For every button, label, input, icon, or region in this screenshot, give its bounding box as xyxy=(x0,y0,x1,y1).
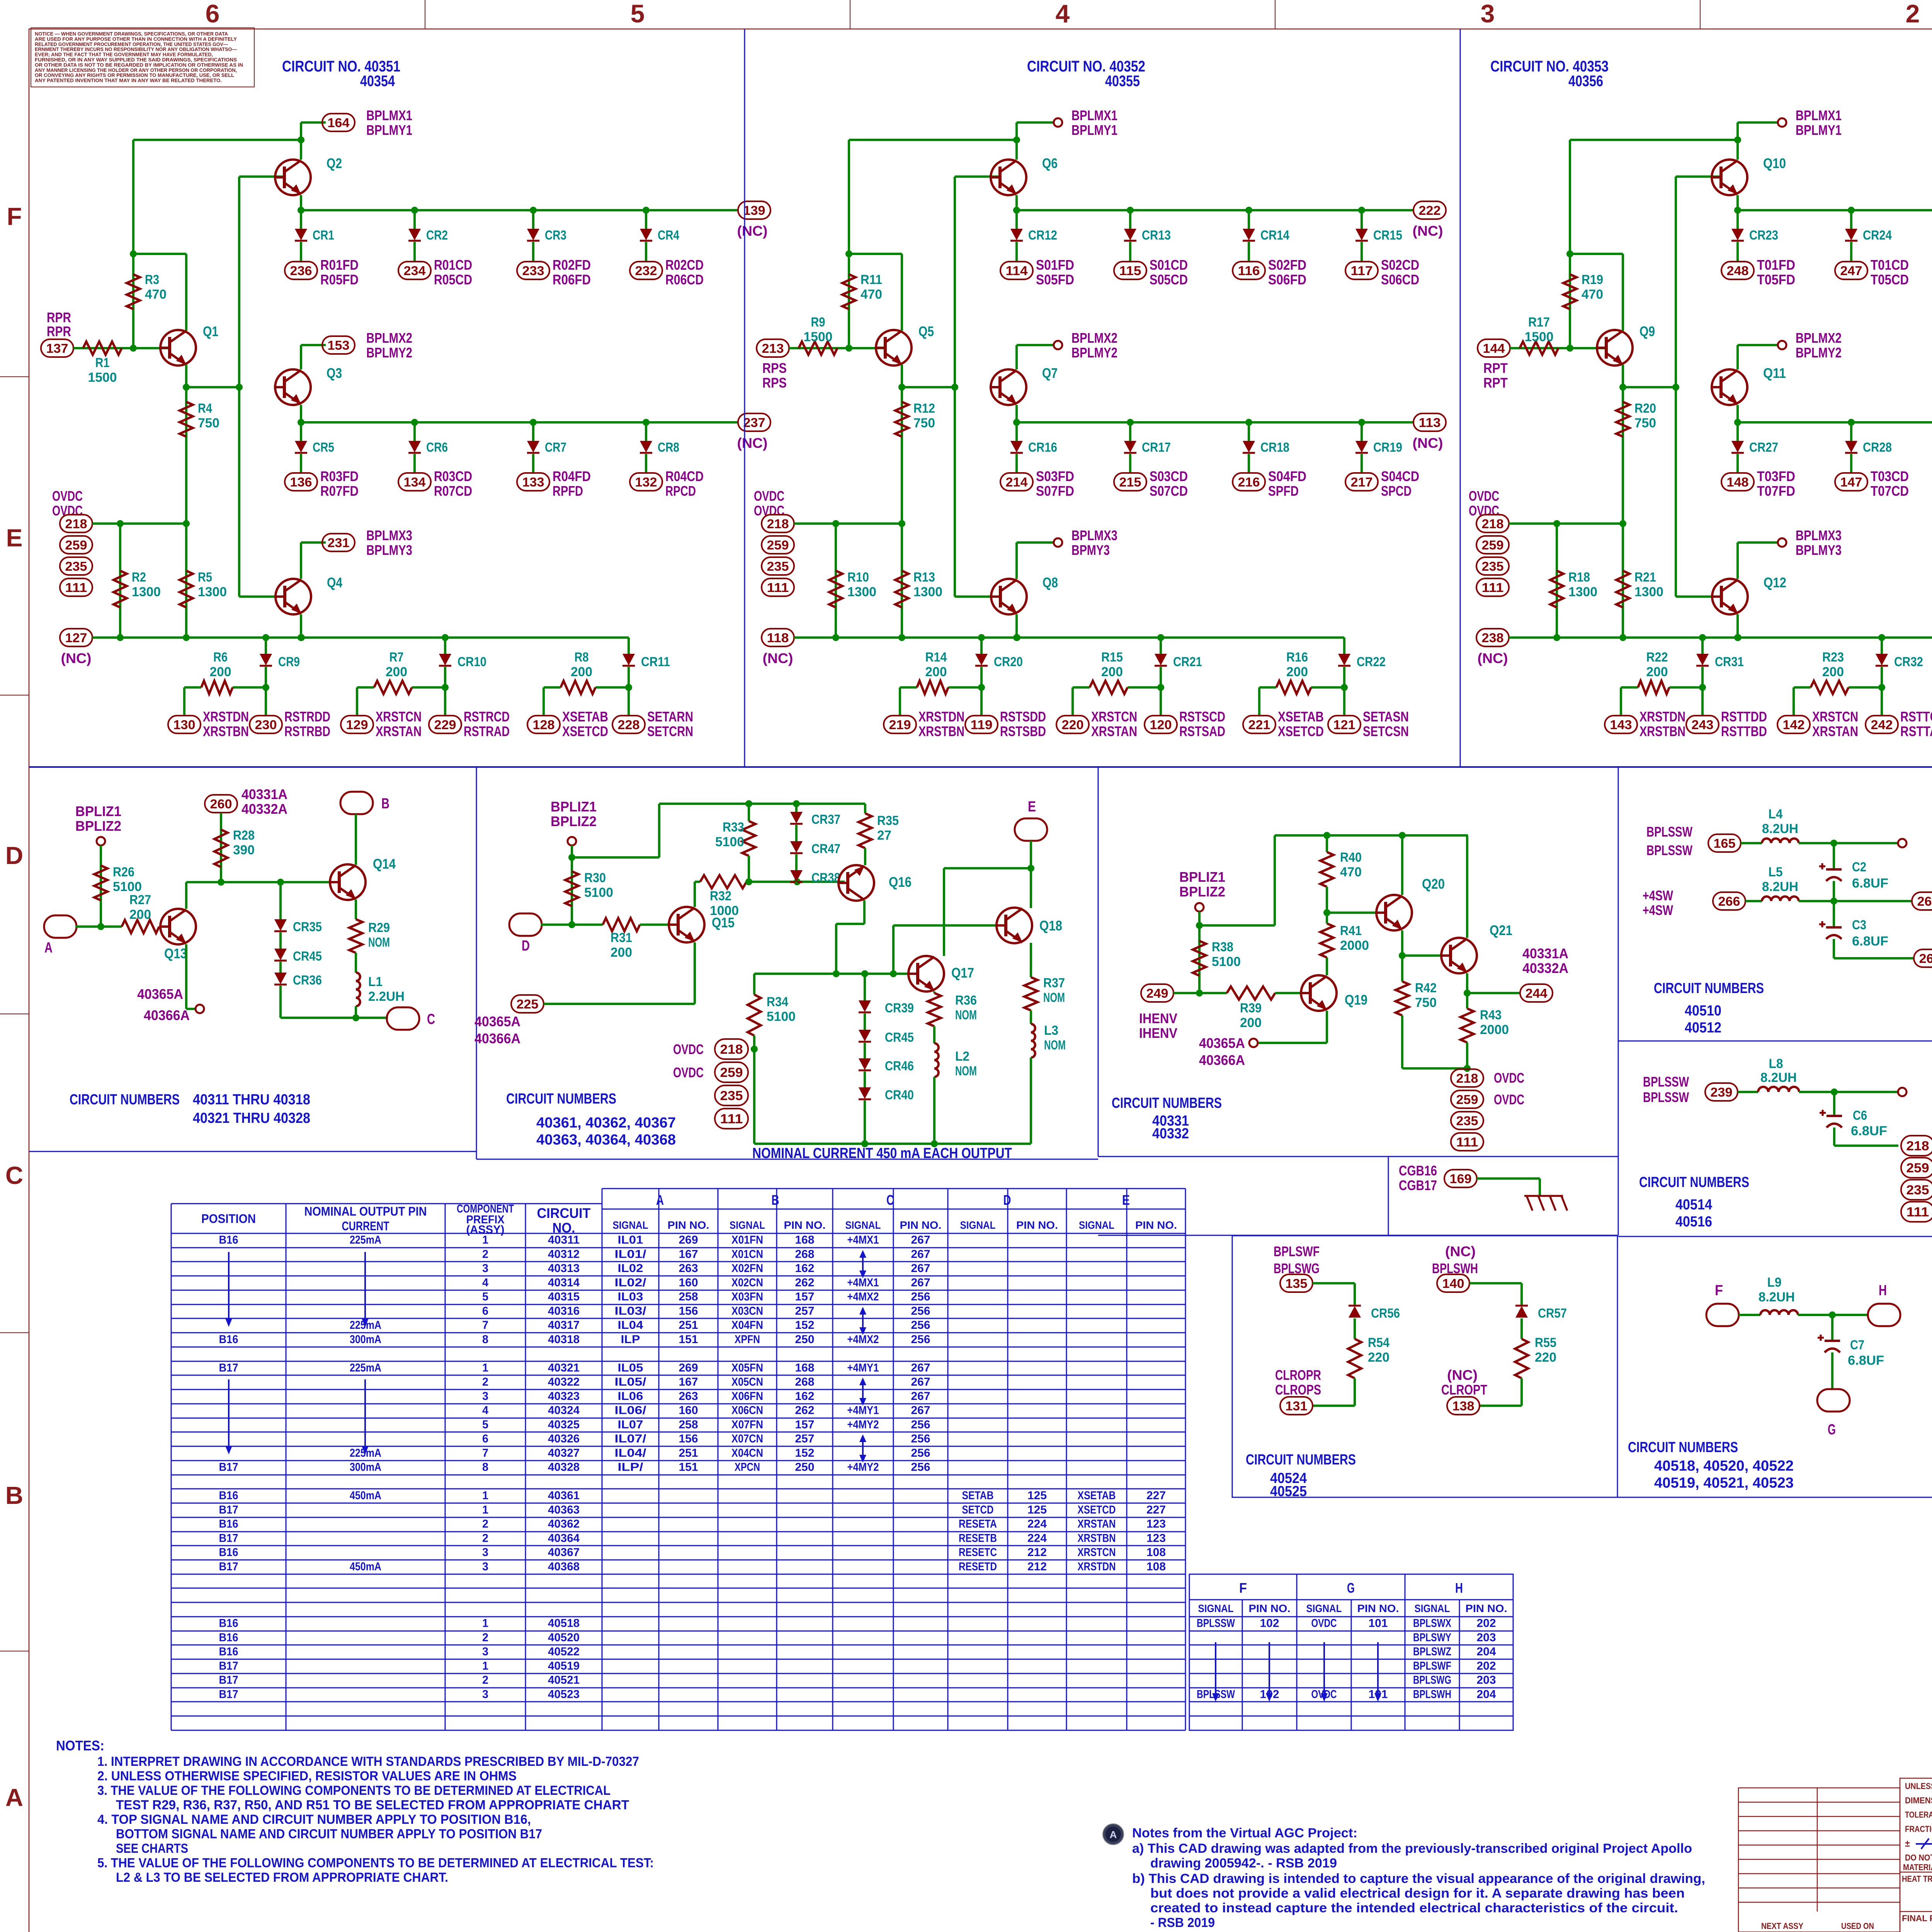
junction xyxy=(931,1140,938,1147)
svg-text:B16: B16 xyxy=(219,1546,238,1559)
svg-text:CLROPR: CLROPR xyxy=(1275,1367,1321,1383)
resistor R9 xyxy=(799,342,837,355)
wire emitter down xyxy=(901,365,903,387)
svg-text:108: 108 xyxy=(1146,1560,1166,1573)
table arrows xyxy=(228,1252,230,1321)
junction xyxy=(978,684,985,691)
svg-text:IHENV: IHENV xyxy=(1139,1025,1177,1041)
wire bus xyxy=(1017,209,1414,211)
junction xyxy=(117,634,124,641)
wire base trunk vertical xyxy=(238,177,240,597)
pin 117 xyxy=(1345,262,1378,279)
svg-text:40325: 40325 xyxy=(548,1418,580,1431)
svg-text:CR31: CR31 xyxy=(1715,655,1744,669)
svg-text:L8: L8 xyxy=(1769,1056,1783,1071)
svg-text:B17: B17 xyxy=(219,1674,238,1687)
svg-text:Q5: Q5 xyxy=(918,323,934,339)
svg-text:T01FD: T01FD xyxy=(1757,257,1795,273)
svg-text:(NC): (NC) xyxy=(737,223,768,239)
wire R54 to 131 xyxy=(1354,1378,1356,1406)
svg-text:204: 204 xyxy=(1477,1688,1496,1701)
svg-text:242: 242 xyxy=(1871,718,1893,732)
svg-text:X01FN: X01FN xyxy=(731,1234,763,1247)
svg-text:40519: 40519 xyxy=(548,1660,580,1672)
svg-text:R14: R14 xyxy=(925,650,947,665)
svg-text:TOLERANCES ON: TOLERANCES ON xyxy=(1905,1810,1932,1820)
svg-text:+4MY1: +4MY1 xyxy=(847,1404,879,1417)
wire L3 to rail xyxy=(1030,1058,1032,1144)
pin 143 xyxy=(1605,716,1637,733)
svg-text:XSETAB: XSETAB xyxy=(1078,1489,1116,1502)
svg-text:B16: B16 xyxy=(219,1518,238,1531)
svg-text:Q1: Q1 xyxy=(203,323,218,339)
svg-text:CGB16: CGB16 xyxy=(1399,1163,1437,1179)
svg-text:OVDC: OVDC xyxy=(673,1041,704,1057)
svg-text:218: 218 xyxy=(1456,1071,1478,1085)
svg-text:216: 216 xyxy=(1238,475,1260,489)
svg-text:128: 128 xyxy=(533,718,555,732)
svg-text:262: 262 xyxy=(795,1404,815,1417)
svg-text:267: 267 xyxy=(911,1234,930,1247)
wire D row xyxy=(541,923,603,926)
svg-text:200: 200 xyxy=(611,945,632,960)
junction xyxy=(1878,684,1885,691)
svg-text:T01CD: T01CD xyxy=(1871,257,1909,273)
diode CR47 xyxy=(795,825,798,841)
svg-text:R2: R2 xyxy=(132,570,146,585)
resistor R1 xyxy=(83,342,122,355)
svg-text:40354: 40354 xyxy=(360,73,395,90)
junction xyxy=(568,854,575,861)
svg-text:but does not provide a valid e: but does not provide a valid electrical … xyxy=(1150,1886,1685,1901)
wire collector row xyxy=(185,882,187,909)
wire bus xyxy=(1738,209,1932,211)
unconnected pin BPLIZ1 xyxy=(568,837,576,845)
wire to rail xyxy=(572,856,659,859)
svg-text:NOM: NOM xyxy=(955,1008,977,1022)
svg-text:XRSTCN: XRSTCN xyxy=(1078,1546,1116,1559)
wire Q19 collector xyxy=(1326,957,1328,975)
svg-text:1: 1 xyxy=(482,1361,488,1374)
unconnected pin BPLIZ1 xyxy=(1195,903,1204,912)
wire to Q19 xyxy=(1275,992,1310,994)
svg-text:131: 131 xyxy=(1286,1399,1308,1413)
capacitor C7 6.8UF xyxy=(1831,1315,1833,1341)
transistor Q21 xyxy=(1441,938,1477,973)
svg-text:CR12: CR12 xyxy=(1028,228,1057,243)
svg-text:SIGNAL: SIGNAL xyxy=(1415,1602,1450,1614)
svg-text:BPLMX3: BPLMX3 xyxy=(1071,527,1117,543)
svg-text:IL01: IL01 xyxy=(618,1234,643,1247)
svg-text:258: 258 xyxy=(679,1418,698,1431)
svg-text:R06CD: R06CD xyxy=(665,272,704,287)
wire vertical left xyxy=(132,140,134,348)
svg-text:231: 231 xyxy=(328,536,350,550)
wire Q17 emitter xyxy=(933,992,935,993)
svg-text:IL03: IL03 xyxy=(618,1291,643,1303)
junction xyxy=(1464,1065,1471,1072)
junction xyxy=(1699,684,1706,691)
svg-text:R12: R12 xyxy=(913,401,935,416)
svg-text:R15: R15 xyxy=(1101,650,1123,665)
section divider xyxy=(476,767,477,1159)
svg-text:XRSTBN: XRSTBN xyxy=(1639,723,1685,739)
svg-text:229: 229 xyxy=(434,718,456,732)
svg-text:4: 4 xyxy=(482,1404,488,1417)
pin 113 xyxy=(1413,413,1446,431)
section divider xyxy=(1460,29,1461,767)
svg-text:236: 236 xyxy=(290,264,312,278)
svg-text:251: 251 xyxy=(679,1447,698,1459)
pin 235 xyxy=(1451,1112,1483,1129)
pin 229 xyxy=(429,716,461,733)
svg-text:F: F xyxy=(1239,1580,1247,1596)
svg-text:XRSTBN: XRSTBN xyxy=(918,723,964,739)
pin 225 xyxy=(511,995,544,1013)
junction xyxy=(1619,634,1626,641)
wire Q18 emitter xyxy=(1030,943,1032,977)
svg-text:RSTSBD: RSTSBD xyxy=(1000,723,1046,739)
pin 130 xyxy=(168,716,201,733)
svg-text:CIRCUIT NUMBERS: CIRCUIT NUMBERS xyxy=(1628,1439,1738,1456)
svg-text:C3: C3 xyxy=(1852,918,1866,932)
svg-text:X03CN: X03CN xyxy=(731,1304,763,1317)
svg-text:40520: 40520 xyxy=(548,1631,580,1644)
wire input to base xyxy=(789,347,884,349)
pin 139 xyxy=(738,201,770,219)
svg-text:Q3: Q3 xyxy=(327,365,342,381)
svg-text:G: G xyxy=(1828,1422,1836,1438)
svg-text:B16: B16 xyxy=(219,1631,238,1644)
junction xyxy=(751,1046,758,1053)
junction xyxy=(978,634,985,641)
svg-text:CR36: CR36 xyxy=(293,973,322,988)
top rail xyxy=(1275,834,1468,837)
svg-text:BPLIZ2: BPLIZ2 xyxy=(551,813,597,829)
svg-text:2.2UH: 2.2UH xyxy=(368,989,405,1004)
svg-text:R03FD: R03FD xyxy=(320,468,359,484)
svg-text:CURRENT: CURRENT xyxy=(342,1219,389,1233)
wire to Q4 base xyxy=(1676,595,1721,598)
svg-text:Q9: Q9 xyxy=(1639,323,1655,339)
diode CR18 xyxy=(1248,422,1250,441)
svg-text:CIRCUIT NUMBERS: CIRCUIT NUMBERS xyxy=(1639,1174,1749,1190)
svg-text:X02CN: X02CN xyxy=(731,1276,763,1289)
svg-text:IL03/: IL03/ xyxy=(615,1304,647,1317)
svg-text:40332A: 40332A xyxy=(1522,960,1568,976)
junction xyxy=(745,878,752,885)
unconnected pin BPLMX1 xyxy=(1738,121,1778,124)
svg-text:S04CD: S04CD xyxy=(1381,468,1419,484)
svg-text:8.2UH: 8.2UH xyxy=(1759,1290,1795,1304)
svg-text:R19: R19 xyxy=(1582,272,1603,287)
wire Q21 emitter xyxy=(1466,973,1468,993)
wire Q4 collector xyxy=(300,543,302,579)
svg-text:D: D xyxy=(5,842,23,869)
junction xyxy=(183,384,190,391)
svg-text:PIN NO.: PIN NO. xyxy=(1135,1219,1177,1231)
svg-text:CR11: CR11 xyxy=(641,655,670,669)
junction xyxy=(951,384,958,391)
unconnected pin 40365A xyxy=(1249,1039,1258,1047)
svg-text:A: A xyxy=(5,1784,23,1811)
connector G xyxy=(1817,1389,1850,1412)
svg-text:R01CD: R01CD xyxy=(434,257,472,273)
svg-text:1: 1 xyxy=(482,1503,488,1516)
svg-text:212: 212 xyxy=(1027,1546,1047,1559)
wire Q21 base xyxy=(1402,954,1450,957)
svg-text:125: 125 xyxy=(1027,1503,1047,1516)
svg-text:- RSB 2019: - RSB 2019 xyxy=(1150,1915,1215,1930)
svg-text:267: 267 xyxy=(911,1248,930,1260)
svg-text:XRSTBN: XRSTBN xyxy=(203,723,249,739)
svg-text:212: 212 xyxy=(1027,1560,1047,1573)
svg-text:139: 139 xyxy=(743,203,765,218)
svg-text:(NC): (NC) xyxy=(1413,435,1443,451)
junction xyxy=(1619,384,1626,391)
svg-text:200: 200 xyxy=(1286,665,1308,679)
connector H xyxy=(1868,1304,1900,1326)
pin 121 xyxy=(1328,716,1361,733)
wire to R39 xyxy=(1173,992,1227,994)
resistor R26 5100 xyxy=(94,866,107,900)
svg-text:390: 390 xyxy=(233,843,255,857)
svg-text:X05CN: X05CN xyxy=(731,1376,763,1388)
svg-text:IL02/: IL02/ xyxy=(615,1276,647,1289)
svg-text:B: B xyxy=(381,796,389,812)
section divider xyxy=(29,1151,476,1152)
svg-text:R04CD: R04CD xyxy=(665,468,704,484)
svg-text:40366A: 40366A xyxy=(144,1007,190,1023)
svg-text:BPLSWF: BPLSWF xyxy=(1274,1243,1320,1259)
wire bottom rail xyxy=(1509,636,1932,639)
svg-text:T07FD: T07FD xyxy=(1757,483,1795,499)
resistor R55 220 xyxy=(1515,1339,1528,1378)
wire Q4 collector xyxy=(1736,543,1739,579)
svg-text:6.8UF: 6.8UF xyxy=(1852,934,1888,949)
junction xyxy=(117,520,124,527)
svg-text:C6: C6 xyxy=(1853,1108,1867,1123)
svg-text:S03CD: S03CD xyxy=(1150,468,1188,484)
svg-text:CGB17: CGB17 xyxy=(1399,1177,1437,1193)
svg-text:b) This CAD drawing is intende: b) This CAD drawing is intended to captu… xyxy=(1132,1871,1705,1886)
svg-text:202: 202 xyxy=(1477,1660,1496,1672)
diode CR35 xyxy=(274,919,287,931)
wire to pin 267 xyxy=(1799,900,1912,902)
svg-text:238: 238 xyxy=(1482,631,1504,645)
svg-text:RSTRDD: RSTRDD xyxy=(284,709,330,724)
svg-text:Q4: Q4 xyxy=(327,575,342,590)
svg-text:147: 147 xyxy=(1840,475,1862,489)
svg-text:RESETA: RESETA xyxy=(959,1518,997,1531)
wire to pins xyxy=(1793,687,1795,716)
svg-text:200: 200 xyxy=(386,665,407,679)
svg-text:200: 200 xyxy=(571,665,592,679)
svg-text:125: 125 xyxy=(1027,1489,1047,1502)
svg-text:CR35: CR35 xyxy=(293,920,322,934)
svg-text:XSETCD: XSETCD xyxy=(1078,1503,1116,1516)
inductor L1 2.2UH xyxy=(355,953,357,973)
junction xyxy=(1553,634,1560,641)
svg-text:Q11: Q11 xyxy=(1763,365,1786,381)
wire bottom rail xyxy=(92,636,629,639)
pin 222 xyxy=(1413,201,1446,219)
svg-text:40366A: 40366A xyxy=(1199,1052,1245,1068)
svg-text:470: 470 xyxy=(145,287,167,302)
svg-text:E: E xyxy=(6,524,23,552)
pin 235 xyxy=(762,557,794,575)
svg-text:BPLMY3: BPLMY3 xyxy=(366,542,412,558)
svg-text:CR24: CR24 xyxy=(1863,228,1892,243)
svg-text:111: 111 xyxy=(1482,580,1504,595)
wire F to L9 xyxy=(1739,1314,1760,1316)
svg-text:XRSTAN: XRSTAN xyxy=(376,723,422,739)
pin 128 xyxy=(527,716,560,733)
svg-text:E: E xyxy=(1028,799,1036,815)
svg-text:X04CN: X04CN xyxy=(731,1447,763,1459)
svg-text:XPFN: XPFN xyxy=(735,1333,760,1346)
svg-text:TEST R29, R36, R37, R50, AND: TEST R29, R36, R37, R50, AND R51 TO BE S… xyxy=(116,1798,629,1813)
wire R34 to stack xyxy=(753,1036,755,1144)
junction xyxy=(745,800,752,807)
svg-text:X02FN: X02FN xyxy=(731,1262,763,1275)
svg-text:NOTICE — WHEN GOVERNMENT DRAWI: NOTICE — WHEN GOVERNMENT DRAWINGS, SPECI… xyxy=(35,31,228,37)
resistor R6 200 xyxy=(184,686,201,689)
svg-text:750: 750 xyxy=(1415,995,1437,1010)
svg-text:4: 4 xyxy=(1056,0,1070,28)
svg-text:Q14: Q14 xyxy=(373,856,396,872)
virtual agc stamp xyxy=(1103,1824,1124,1845)
svg-text:RSTTCD: RSTTCD xyxy=(1900,709,1932,724)
svg-text:1300: 1300 xyxy=(1634,585,1663,599)
svg-text:H: H xyxy=(1879,1282,1887,1299)
svg-text:C: C xyxy=(886,1192,894,1208)
section divider xyxy=(1232,1236,1617,1497)
pin 265 xyxy=(1914,949,1932,967)
pin 219 xyxy=(884,716,916,733)
transistor Q5 xyxy=(876,330,912,366)
pin 216 xyxy=(1233,473,1265,491)
section divider xyxy=(1388,1156,1389,1235)
svg-text:235: 235 xyxy=(720,1088,743,1103)
wire Q20 collector xyxy=(1401,835,1403,895)
svg-text:239: 239 xyxy=(1711,1085,1733,1099)
transistor Q12 xyxy=(1712,579,1748,614)
svg-text:235: 235 xyxy=(1456,1114,1478,1128)
svg-text:RSTRBD: RSTRBD xyxy=(284,723,330,739)
svg-text:XRSTCN: XRSTCN xyxy=(1812,709,1858,724)
svg-text:CR6: CR6 xyxy=(426,440,448,455)
svg-text:EVER; AND THE FACT THAT THE GO: EVER; AND THE FACT THAT THE GOVERNMENT M… xyxy=(35,52,213,58)
svg-text:CR39: CR39 xyxy=(885,1001,914,1015)
svg-text:SETARN: SETARN xyxy=(647,709,693,724)
svg-text:C2: C2 xyxy=(1852,860,1866,874)
svg-text:RSTRCD: RSTRCD xyxy=(464,709,510,724)
junction xyxy=(236,384,243,391)
wire emitter down xyxy=(185,365,187,387)
junction xyxy=(1157,684,1164,691)
svg-text:40363: 40363 xyxy=(548,1503,580,1516)
section divider xyxy=(29,766,1932,768)
wire 225 to Q15 emitter xyxy=(544,1003,695,1005)
pin 259 xyxy=(762,536,794,554)
svg-text:NOM: NOM xyxy=(368,935,390,950)
diode CR31 xyxy=(1701,638,1704,654)
svg-text:217: 217 xyxy=(1351,475,1373,489)
svg-text:267: 267 xyxy=(911,1390,930,1403)
svg-text:CLROPS: CLROPS xyxy=(1275,1382,1321,1398)
pin 218 xyxy=(1901,1136,1932,1156)
wire Q15 collector xyxy=(694,882,696,907)
svg-text:227: 227 xyxy=(1146,1489,1166,1502)
svg-text:R9: R9 xyxy=(811,315,825,330)
svg-text:DO NOT SCALE THIS DRAWING: DO NOT SCALE THIS DRAWING xyxy=(1905,1853,1932,1862)
svg-text:143: 143 xyxy=(1610,718,1632,732)
pin 235 xyxy=(60,557,92,575)
junction xyxy=(1878,634,1885,641)
wire 135 to CR56 xyxy=(1313,1282,1355,1284)
svg-text:S06FD: S06FD xyxy=(1268,272,1306,287)
diode CR4 xyxy=(645,210,647,229)
svg-text:108: 108 xyxy=(1146,1546,1166,1559)
svg-text:144: 144 xyxy=(1483,341,1505,355)
svg-text:CR19: CR19 xyxy=(1373,440,1402,455)
svg-text:750: 750 xyxy=(1634,416,1656,430)
pin 129 xyxy=(341,716,373,733)
svg-text:XRSTCN: XRSTCN xyxy=(376,709,422,724)
svg-text:(NC): (NC) xyxy=(1478,650,1508,666)
svg-text:263: 263 xyxy=(679,1262,698,1275)
svg-text:202: 202 xyxy=(1477,1617,1496,1630)
svg-text:UNLESS OTHERWISE SPECIFIED: UNLESS OTHERWISE SPECIFIED xyxy=(1905,1781,1932,1791)
svg-text:created to instead capture the: created to instead capture the intended … xyxy=(1150,1901,1678,1915)
pin 235 xyxy=(1476,557,1509,575)
svg-text:40518: 40518 xyxy=(548,1617,580,1630)
pin 243 xyxy=(1686,716,1719,733)
svg-text:IL06/: IL06/ xyxy=(615,1404,647,1417)
svg-text:200: 200 xyxy=(1240,1015,1262,1030)
transistor Q18 xyxy=(997,908,1032,943)
svg-text:SIGNAL: SIGNAL xyxy=(613,1219,648,1231)
pin 111 xyxy=(715,1109,748,1129)
diode CR20 xyxy=(980,638,983,654)
svg-text:132: 132 xyxy=(635,475,657,489)
svg-text:OR CONVEYING ANY RIGHTS OR PER: OR CONVEYING ANY RIGHTS OR PERMISSION TO… xyxy=(35,73,234,78)
svg-text:5100: 5100 xyxy=(584,885,613,900)
svg-text:SIGNAL: SIGNAL xyxy=(1306,1602,1342,1614)
svg-text:BPLMY3: BPLMY3 xyxy=(1796,542,1842,558)
svg-text:168: 168 xyxy=(795,1361,815,1374)
svg-text:R04FD: R04FD xyxy=(553,468,591,484)
wire Q4 emitter xyxy=(300,614,302,638)
wire R41 to R40 xyxy=(1326,913,1328,923)
junction xyxy=(643,419,650,426)
svg-text:IL05: IL05 xyxy=(618,1361,643,1374)
svg-text:225: 225 xyxy=(517,997,539,1011)
connector C xyxy=(387,1007,419,1030)
svg-text:151: 151 xyxy=(679,1333,698,1346)
svg-text:470: 470 xyxy=(1340,865,1362,879)
wire to Q collector riser xyxy=(133,253,186,255)
svg-text:267: 267 xyxy=(1917,894,1932,908)
pin 242 xyxy=(1866,716,1898,733)
transistor Q2 xyxy=(275,160,311,195)
svg-text:CR47: CR47 xyxy=(811,842,840,856)
svg-text:127: 127 xyxy=(65,631,87,645)
pin 235 xyxy=(1901,1180,1932,1200)
svg-text:B17: B17 xyxy=(219,1503,238,1516)
svg-text:3: 3 xyxy=(482,1688,488,1701)
